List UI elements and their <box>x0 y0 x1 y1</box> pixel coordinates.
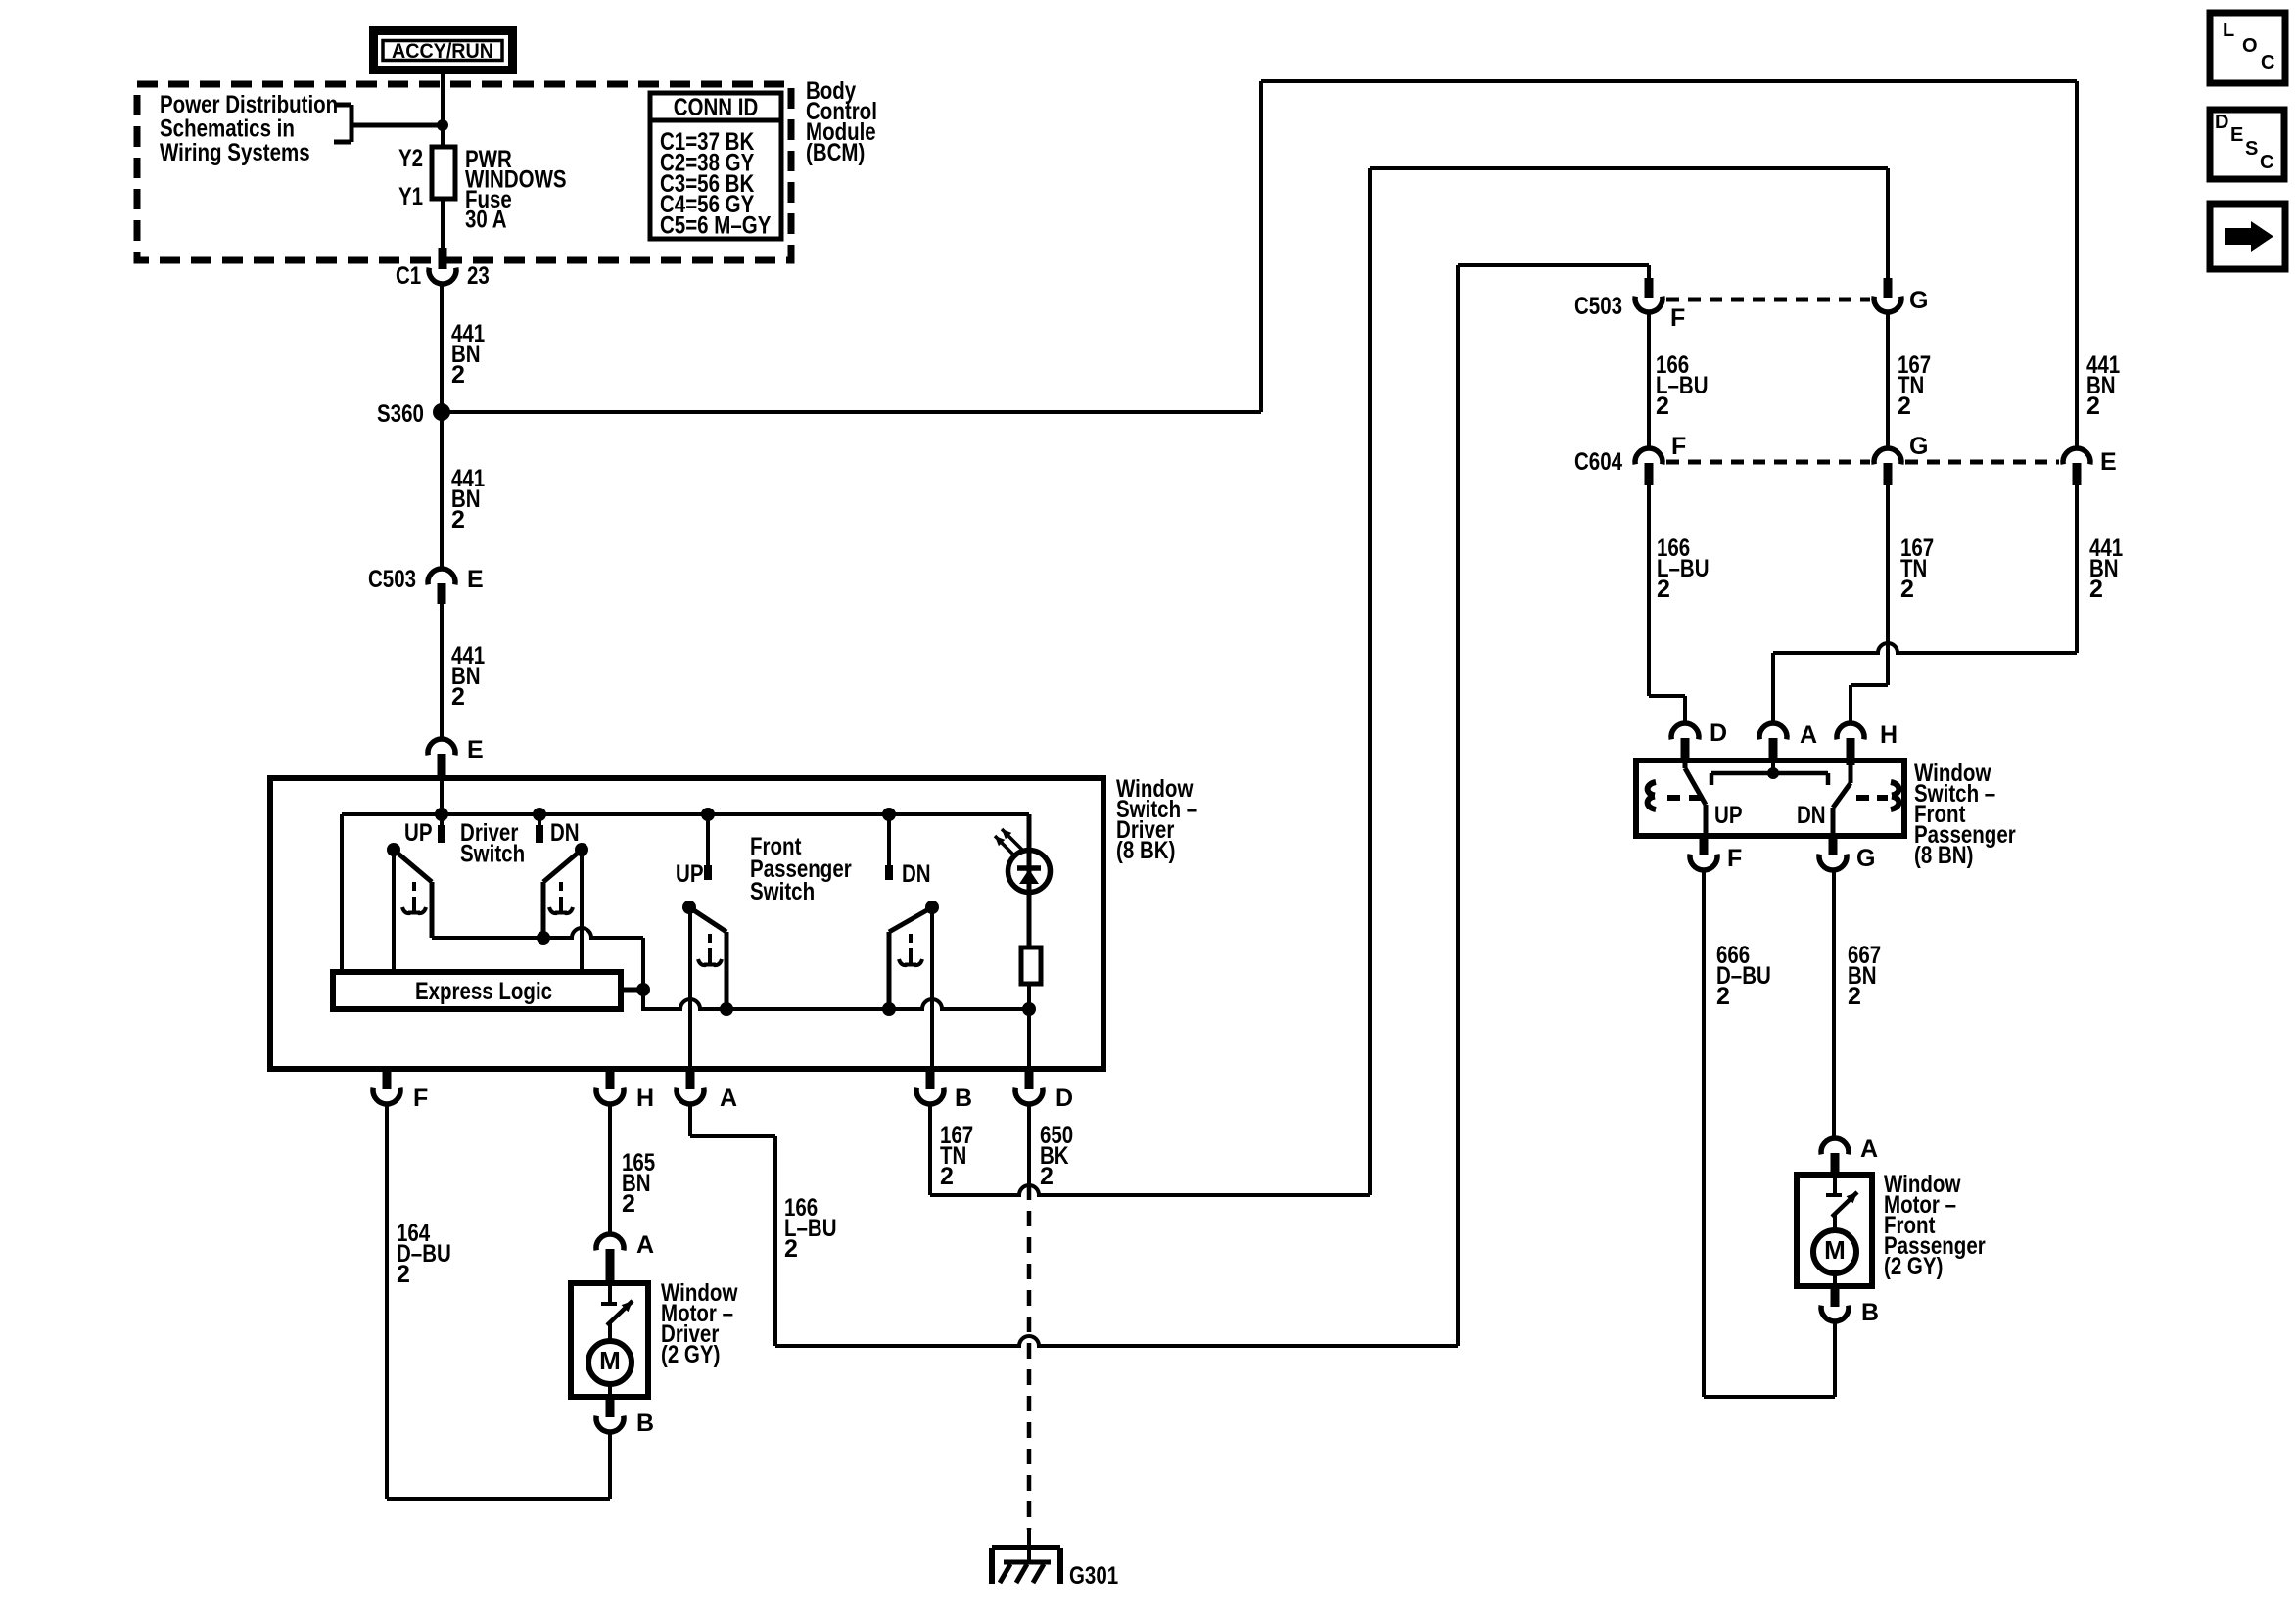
label UP (driver) <box>404 819 433 847</box>
svg-text:DN: DN <box>550 819 580 847</box>
connector C503 pin G (right) <box>1874 278 1928 314</box>
momentary arrow right <box>1856 782 1898 809</box>
label 667 BN 2 <box>1848 942 1881 1010</box>
label Y2 <box>398 145 423 172</box>
wire 166 L-BU 2 (C503 F to C604 F) <box>1647 312 1651 448</box>
label 167 TN 2 <box>1898 351 1931 420</box>
svg-text:2: 2 <box>1656 393 1669 420</box>
svg-text:UP: UP <box>1714 802 1743 829</box>
svg-text:B: B <box>955 1085 972 1112</box>
LED illumination feed <box>1027 814 1032 947</box>
wire rail down to logic tap <box>641 938 645 1009</box>
wire 441 BN 2 (C604 E to A) <box>1773 485 2077 723</box>
node bus junction at passenger DN <box>882 808 896 821</box>
connector C503 mating line (dashed) <box>1666 298 1870 302</box>
wire 667 BN 2 (G to motor A) <box>1832 870 1836 1138</box>
wire passenger UP pole (to pin A) <box>688 907 692 1069</box>
wire internal supply bus <box>342 814 1029 972</box>
svg-text:Express Logic: Express Logic <box>415 978 552 1005</box>
svg-text:2: 2 <box>1848 983 1861 1010</box>
legend box arrow <box>2210 204 2285 269</box>
svg-text:D: D <box>1710 719 1727 747</box>
label UP (passenger unit) <box>1714 802 1743 829</box>
svg-text:F: F <box>1670 304 1685 332</box>
svg-text:DN: DN <box>1797 802 1826 829</box>
svg-text:F: F <box>1671 433 1686 460</box>
component box Window Switch - Front Passenger <box>1636 761 1904 836</box>
wire switch common rail <box>432 928 643 938</box>
svg-text:G: G <box>1856 845 1875 872</box>
switch blade passenger DN <box>889 901 939 1009</box>
power node ACCY/RUN <box>374 31 513 70</box>
connector E (driver switch input) <box>428 736 484 778</box>
svg-text:A: A <box>1800 721 1817 749</box>
connector pin F (passenger switch) <box>1690 836 1742 872</box>
svg-text:C503: C503 <box>1574 293 1622 320</box>
label DN (driver) <box>550 819 580 847</box>
motor M (driver) <box>588 1341 632 1384</box>
svg-text:2: 2 <box>2086 393 2100 420</box>
wire 164 D-BU 2 (F to motor B) <box>387 1104 610 1499</box>
svg-text:30 A: 30 A <box>465 207 507 234</box>
svg-text:B: B <box>636 1409 654 1437</box>
label 166 L-BU 2 <box>1656 351 1709 420</box>
connector H (passenger switch) <box>1837 721 1898 765</box>
module label Body Control Module (BCM) <box>806 77 877 166</box>
LED indicator <box>995 829 1051 893</box>
svg-text:H: H <box>1880 721 1898 749</box>
connector pin D (driver switch) <box>1015 1069 1073 1112</box>
svg-text:C503: C503 <box>368 566 416 593</box>
wire E pin into switch <box>440 778 444 814</box>
svg-text:2: 2 <box>451 506 465 533</box>
wire B to loop bottom <box>1833 1321 1837 1397</box>
label UP (passenger) <box>676 860 704 888</box>
wire 650 BK 2 (D pin to ground) <box>1027 1104 1031 1530</box>
svg-text:(8 BK): (8 BK) <box>1116 837 1175 864</box>
node rail junction at passenger DN blade <box>882 1002 896 1016</box>
svg-text:B: B <box>1861 1299 1879 1326</box>
label 650 BK 2 <box>1040 1122 1073 1190</box>
svg-text:C: C <box>2260 152 2273 173</box>
svg-text:Switch: Switch <box>460 841 525 868</box>
motor M (passenger) <box>1813 1230 1856 1273</box>
switch blade driver UP <box>387 843 432 938</box>
wire resistor to common <box>1027 984 1031 1069</box>
svg-text:A: A <box>636 1231 654 1259</box>
wire driver DN pole to Express Logic <box>580 850 584 972</box>
svg-text:2: 2 <box>1657 576 1670 603</box>
svg-text:G: G <box>1909 433 1928 460</box>
svg-text:2: 2 <box>784 1235 798 1263</box>
label Window Switch - Front Passenger (8 BN) <box>1914 760 2016 869</box>
label 441 BN 2 <box>451 642 485 711</box>
label 165 BN 2 <box>622 1149 655 1218</box>
wire 166 L-BU 2 (A pin toward passenger F) <box>690 1104 1458 1346</box>
svg-text:S360: S360 <box>377 400 424 428</box>
connector pin A (driver switch) <box>677 1069 737 1112</box>
svg-text:UP: UP <box>676 860 704 888</box>
svg-text:ACCY/RUN: ACCY/RUN <box>392 39 493 63</box>
wire 166 L-BU branch (A pin to C503 F) <box>1458 265 1649 1346</box>
svg-text:2: 2 <box>1040 1163 1054 1190</box>
svg-text:E: E <box>2230 124 2243 146</box>
wire 165 BN 2 (H to motor A) <box>608 1104 612 1234</box>
svg-text:L: L <box>2223 20 2234 41</box>
svg-text:M: M <box>599 1346 621 1375</box>
svg-text:S: S <box>2245 138 2258 160</box>
svg-text:C1: C1 <box>396 262 421 290</box>
node bus junction at passenger UP <box>701 808 715 821</box>
node junction at fuse feed <box>437 119 448 131</box>
wire 441 BN 2 (C1 to S360) <box>440 284 444 412</box>
svg-text:E: E <box>467 566 484 593</box>
connector pin H (driver switch) <box>596 1069 654 1112</box>
connector C503 pin E (left) <box>368 566 484 604</box>
label Window Switch - Driver (8 BK) <box>1116 775 1197 864</box>
svg-text:M: M <box>1824 1235 1846 1265</box>
svg-text:Y1: Y1 <box>398 183 423 210</box>
wire motor to pin B <box>608 1384 612 1397</box>
connector C604 mating line (dashed) <box>1666 460 2059 465</box>
label 167 TN 2 <box>940 1122 973 1190</box>
wire passenger DN pole (to pin B) <box>930 907 934 1069</box>
label Window Motor - Front Passenger (2 GY) <box>1884 1171 1986 1280</box>
momentary arrow left <box>1648 782 1702 809</box>
label Driver Switch <box>460 819 525 868</box>
svg-text:(8 BN): (8 BN) <box>1914 842 1973 869</box>
connector C503 pin F (right) <box>1574 278 1685 332</box>
svg-text:(2 GY): (2 GY) <box>1884 1253 1943 1280</box>
contact stub passenger DN <box>887 814 891 880</box>
table CONN ID <box>650 93 781 240</box>
switch blade driver DN <box>543 843 588 938</box>
switch blade passenger-unit DN <box>1833 762 1851 836</box>
wire 167 TN branch (B pin to C503 G) <box>1370 168 1888 1195</box>
label Y1 <box>398 183 423 210</box>
svg-text:F: F <box>1727 845 1742 872</box>
connector A (driver motor) <box>596 1231 654 1283</box>
component box Window Switch - Driver <box>270 778 1103 1069</box>
svg-text:2: 2 <box>940 1163 954 1190</box>
label Window Motor - Driver (2 GY) <box>661 1279 738 1368</box>
module box Power Distribution (dashed) <box>137 84 791 260</box>
component box Window Motor - Driver <box>571 1283 648 1397</box>
splice S360 <box>377 400 450 428</box>
connector pin B (driver switch) <box>916 1069 972 1112</box>
svg-text:2: 2 <box>1716 983 1730 1010</box>
svg-text:F: F <box>413 1085 428 1112</box>
bracket reference pointer <box>334 105 443 142</box>
label 166 L-BU 2 <box>784 1194 837 1263</box>
svg-text:CONN ID: CONN ID <box>674 94 759 121</box>
node bus junction at driver DN <box>533 808 546 821</box>
svg-text:E: E <box>467 736 484 763</box>
connector C604 pin F <box>1574 433 1686 485</box>
connector C604 pin G <box>1874 433 1928 485</box>
label PWR WINDOWS Fuse 30 A <box>465 146 567 234</box>
svg-text:E: E <box>2100 448 2117 476</box>
label 666 D-BU 2 <box>1716 942 1771 1010</box>
wire 166 L-BU 2 (C604 F to D) <box>1649 485 1685 723</box>
connector B (passenger motor) <box>1821 1286 1879 1326</box>
label DN (passenger) <box>902 860 931 888</box>
svg-text:Y2: Y2 <box>398 145 423 172</box>
wire driver UP pole to Express Logic <box>392 850 396 972</box>
connector D (passenger switch) <box>1671 719 1727 761</box>
svg-text:2: 2 <box>451 361 465 389</box>
circuit breaker (passenger motor thermal) <box>1826 1175 1857 1231</box>
svg-text:Wiring Systems: Wiring Systems <box>160 139 310 166</box>
module box Express Logic <box>333 972 621 1009</box>
svg-text:C604: C604 <box>1574 448 1622 476</box>
svg-text:2: 2 <box>1898 393 1911 420</box>
node common junction at pin D <box>1022 1002 1036 1016</box>
component box Window Motor - Front Passenger <box>1797 1175 1872 1286</box>
svg-text:2: 2 <box>451 683 465 711</box>
svg-text:C: C <box>2261 52 2274 73</box>
wire common bar (A pin) <box>1711 761 1828 785</box>
label 441 BN 2 <box>2089 534 2123 603</box>
svg-text:D: D <box>2215 112 2228 133</box>
wire 167 TN 2 (C604 G to H) <box>1851 485 1888 723</box>
connector C1 pin 23 <box>396 248 490 290</box>
label 164 D-BU 2 <box>397 1220 451 1288</box>
connector B (driver motor) <box>596 1397 654 1437</box>
wire common to passenger switches <box>643 999 1029 1011</box>
svg-text:2: 2 <box>397 1261 410 1288</box>
label DN (passenger unit) <box>1797 802 1826 829</box>
svg-text:Switch: Switch <box>750 878 815 905</box>
wire motor to pin B (passenger) <box>1833 1273 1837 1286</box>
node bus junction at driver UP <box>435 808 448 821</box>
svg-text:A: A <box>720 1085 737 1112</box>
svg-text:(2 GY): (2 GY) <box>661 1341 720 1368</box>
node logic tap junction <box>636 983 650 996</box>
switch blade passenger UP <box>682 901 726 1009</box>
contact stub driver DN <box>538 814 541 843</box>
wire 167 TN 2 (B pin toward passenger G) <box>930 1104 1370 1195</box>
svg-text:DN: DN <box>902 860 931 888</box>
fuse PWR WINDOWS 30 A <box>432 147 455 199</box>
connector pin G (passenger switch) <box>1819 836 1875 872</box>
svg-text:O: O <box>2242 35 2258 57</box>
label Front Passenger Switch <box>750 833 852 905</box>
svg-text:A: A <box>1860 1135 1878 1163</box>
connector pin F (driver switch) <box>373 1069 428 1112</box>
label 166 L-BU 2 <box>1657 534 1710 603</box>
switch blade passenger-unit UP <box>1685 762 1706 836</box>
svg-text:D: D <box>1055 1085 1073 1112</box>
svg-text:2: 2 <box>622 1190 635 1218</box>
wire 441 BN 2 (S360 to C503) <box>440 412 444 569</box>
wire Express Logic tap <box>621 988 643 993</box>
contact stub driver UP <box>440 814 444 843</box>
label 441 BN 2 (right column) <box>2086 351 2120 420</box>
wire 666 D-BU 2 (F to motor B) <box>1704 870 1835 1397</box>
label 167 TN 2 <box>1900 534 1934 603</box>
connector A (passenger switch) <box>1759 721 1817 762</box>
resistor (LED dropping) <box>1021 947 1041 984</box>
connector C604 pin E <box>2063 448 2117 485</box>
wire 167 TN 2 (C503 G to C604 G) <box>1886 312 1890 448</box>
svg-text:H: H <box>636 1085 654 1112</box>
svg-text:2: 2 <box>1900 576 1914 603</box>
svg-text:UP: UP <box>404 819 433 847</box>
node rail junction at passenger UP blade <box>720 1002 733 1016</box>
svg-text:2: 2 <box>2089 576 2103 603</box>
circuit breaker (driver motor thermal) <box>601 1283 633 1342</box>
legend box DESC <box>2210 110 2284 179</box>
svg-text:23: 23 <box>467 262 490 290</box>
contact stub passenger UP <box>706 814 710 880</box>
connector A (passenger motor) <box>1821 1135 1878 1175</box>
wire ACCY/RUN to fuse <box>441 74 445 147</box>
wire S360 to C604 E (441 BN 2 feed) <box>442 81 2077 448</box>
label 441 BN 2 <box>451 320 485 389</box>
node rail junction at DN blade <box>537 931 550 945</box>
wire fuse to C1 <box>441 199 445 249</box>
svg-text:G301: G301 <box>1069 1562 1118 1590</box>
svg-text:(BCM): (BCM) <box>806 139 865 166</box>
label Power Distribution Schematics in Wiring Systems <box>160 91 338 166</box>
wire 441 BN 2 (C503 to switch E) <box>440 604 444 739</box>
svg-text:G: G <box>1909 287 1928 314</box>
label 441 BN 2 <box>451 465 485 533</box>
legend box LOC <box>2210 13 2285 83</box>
svg-text:C5=6 M–GY: C5=6 M–GY <box>660 212 772 240</box>
ground G301 <box>992 1530 1118 1590</box>
